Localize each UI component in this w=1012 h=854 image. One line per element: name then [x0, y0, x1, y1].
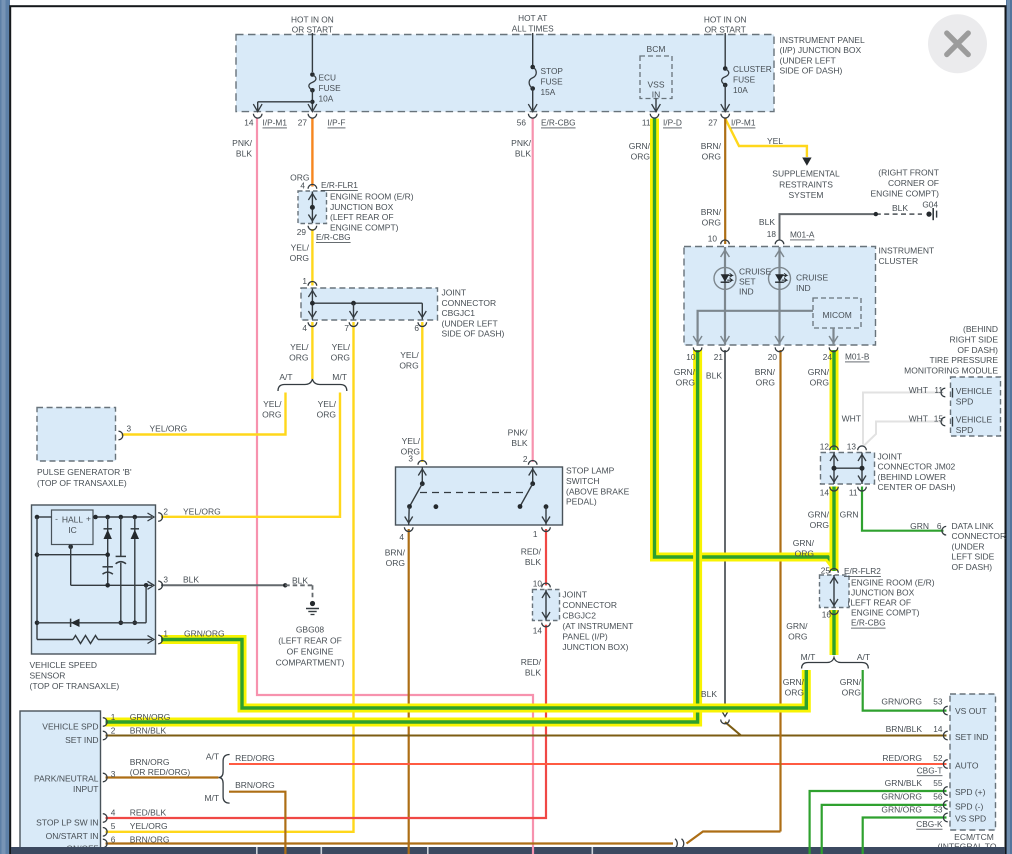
svg-text:14: 14: [933, 724, 943, 734]
svg-text:GRN: GRN: [840, 510, 859, 520]
svg-text:M/T: M/T: [801, 652, 816, 662]
svg-text:2: 2: [111, 726, 116, 736]
svg-text:M01-B: M01-B: [845, 352, 870, 362]
svg-text:3: 3: [111, 769, 116, 779]
svg-text:STOP: STOP: [541, 66, 564, 76]
svg-text:6: 6: [414, 323, 419, 333]
svg-text:E/R-CBG: E/R-CBG: [851, 618, 886, 628]
svg-text:10: 10: [686, 352, 696, 362]
svg-text:1: 1: [163, 629, 168, 639]
svg-text:4: 4: [111, 807, 116, 817]
svg-text:VEHICLE: VEHICLE: [956, 386, 993, 396]
svg-text:PEDAL): PEDAL): [566, 497, 597, 507]
svg-text:HOT IN ON: HOT IN ON: [291, 15, 334, 25]
svg-text:PARK/NEUTRAL: PARK/NEUTRAL: [34, 773, 99, 783]
svg-text:ORG: ORG: [262, 409, 281, 419]
svg-text:BCM: BCM: [647, 44, 666, 54]
svg-text:ORG: ORG: [386, 558, 405, 568]
svg-text:RESTRAINTS: RESTRAINTS: [779, 179, 833, 189]
svg-text:MICOM: MICOM: [823, 310, 852, 320]
svg-text:14: 14: [244, 118, 254, 128]
svg-text:(LEFT REAR OF: (LEFT REAR OF: [848, 598, 912, 608]
svg-text:JOINT: JOINT: [878, 452, 903, 462]
svg-text:10: 10: [533, 579, 543, 589]
svg-text:ORG: ORG: [756, 377, 775, 387]
svg-text:CONNECTOR: CONNECTOR: [562, 600, 617, 610]
svg-text:SPD: SPD: [956, 425, 973, 435]
svg-text:ORG: ORG: [702, 217, 721, 227]
svg-text:I/P-M1: I/P-M1: [263, 118, 288, 128]
svg-text:IN: IN: [652, 90, 661, 100]
svg-text:YEL: YEL: [767, 136, 783, 146]
svg-text:ENGINE ROOM (E/R): ENGINE ROOM (E/R): [851, 577, 935, 587]
svg-text:ORG: ORG: [795, 548, 814, 558]
svg-text:1: 1: [533, 529, 538, 539]
svg-text:DATA LINK: DATA LINK: [952, 521, 995, 531]
svg-text:YEL/: YEL/: [291, 243, 310, 253]
svg-text:GRN/: GRN/: [674, 367, 696, 377]
svg-text:CBGJC2: CBGJC2: [562, 611, 596, 621]
svg-text:BLK: BLK: [701, 689, 717, 699]
svg-text:M/T: M/T: [204, 793, 219, 803]
svg-text:ENGINE COMPT): ENGINE COMPT): [871, 188, 940, 198]
svg-text:YEL/ORG: YEL/ORG: [183, 507, 221, 517]
svg-text:ORG: ORG: [676, 377, 695, 387]
svg-text:JUNCTION BOX: JUNCTION BOX: [851, 587, 915, 597]
svg-text:(LEFT REAR OF: (LEFT REAR OF: [330, 212, 394, 222]
svg-text:1: 1: [302, 276, 307, 286]
svg-text:JUNCTION BOX): JUNCTION BOX): [562, 642, 628, 652]
svg-text:CRUISE: CRUISE: [739, 267, 771, 277]
svg-text:BLK: BLK: [292, 575, 308, 585]
svg-text:18: 18: [767, 229, 777, 239]
svg-text:E/R-FLR2: E/R-FLR2: [844, 566, 881, 576]
svg-text:CRUISE: CRUISE: [796, 273, 828, 283]
svg-text:SWITCH: SWITCH: [566, 476, 600, 486]
svg-text:I/P-D: I/P-D: [663, 118, 682, 128]
svg-text:14: 14: [820, 488, 830, 498]
svg-text:AUTO: AUTO: [955, 761, 979, 771]
svg-text:PNK/: PNK/: [508, 428, 528, 438]
svg-text:PANEL (I/P): PANEL (I/P): [562, 632, 608, 642]
svg-text:IND: IND: [739, 286, 754, 296]
svg-text:2: 2: [523, 454, 528, 464]
svg-text:INSTRUMENT: INSTRUMENT: [879, 245, 935, 255]
svg-text:BLK: BLK: [183, 575, 199, 585]
svg-text:BLK: BLK: [515, 148, 531, 158]
svg-text:BRN/ORG: BRN/ORG: [130, 834, 170, 844]
svg-text:I/P-F: I/P-F: [328, 118, 346, 128]
svg-text:M01-A: M01-A: [790, 230, 815, 240]
svg-text:IND: IND: [796, 283, 811, 293]
svg-text:A/T: A/T: [857, 652, 870, 662]
svg-text:BLK: BLK: [892, 203, 908, 213]
svg-text:ORG: ORG: [317, 409, 336, 419]
svg-text:ECU: ECU: [319, 73, 337, 83]
svg-text:YEL/: YEL/: [402, 436, 421, 446]
svg-text:-: -: [55, 513, 58, 523]
svg-text:25: 25: [821, 566, 831, 576]
svg-text:YEL/ORG: YEL/ORG: [130, 821, 168, 831]
svg-text:GRN/: GRN/: [629, 141, 651, 151]
svg-text:BRN/ORG: BRN/ORG: [235, 780, 275, 790]
svg-text:3: 3: [127, 424, 132, 434]
svg-text:WHT: WHT: [909, 414, 928, 424]
svg-text:BLK: BLK: [525, 668, 541, 678]
svg-text:VS OUT: VS OUT: [955, 706, 987, 716]
svg-text:ORG: ORG: [399, 360, 418, 370]
svg-text:A/T: A/T: [206, 751, 219, 761]
svg-text:(BEHIND: (BEHIND: [963, 324, 998, 334]
svg-text:(I/P) JUNCTION BOX: (I/P) JUNCTION BOX: [780, 45, 862, 55]
svg-text:YEL/: YEL/: [400, 350, 419, 360]
svg-text:11: 11: [934, 385, 943, 395]
svg-text:(ABOVE BRAKE: (ABOVE BRAKE: [566, 486, 630, 496]
svg-text:GRN/: GRN/: [786, 621, 808, 631]
svg-text:PULSE GENERATOR 'B': PULSE GENERATOR 'B': [37, 467, 132, 477]
svg-text:JOINT: JOINT: [562, 590, 587, 600]
svg-text:E/R-FLR1: E/R-FLR1: [321, 180, 358, 190]
svg-text:VEHICLE: VEHICLE: [956, 415, 993, 425]
svg-text:BRN/BLK: BRN/BLK: [886, 724, 923, 734]
svg-text:GRN/ORG: GRN/ORG: [881, 804, 922, 814]
svg-text:3: 3: [163, 575, 168, 585]
svg-text:CLUSTER: CLUSTER: [879, 256, 919, 266]
svg-text:13: 13: [847, 442, 857, 452]
svg-text:SYSTEM: SYSTEM: [789, 190, 824, 200]
svg-text:RED/BLK: RED/BLK: [130, 807, 167, 817]
svg-text:GRN/ORG: GRN/ORG: [881, 697, 922, 707]
svg-text:7: 7: [344, 323, 349, 333]
svg-text:E/R-CBG: E/R-CBG: [316, 232, 351, 242]
svg-text:I/P-M1: I/P-M1: [731, 118, 756, 128]
svg-text:GRN/: GRN/: [808, 510, 830, 520]
svg-text:OF DASH): OF DASH): [957, 345, 998, 355]
svg-text:YEL/: YEL/: [332, 342, 351, 352]
svg-text:15A: 15A: [541, 87, 556, 97]
svg-text:RED/: RED/: [521, 657, 542, 667]
svg-text:CENTER OF DASH): CENTER OF DASH): [878, 482, 956, 492]
svg-text:(UNDER: (UNDER: [952, 541, 985, 551]
svg-text:OF ENGINE: OF ENGINE: [287, 646, 334, 656]
svg-text:CLUSTER: CLUSTER: [733, 64, 772, 74]
svg-text:BRN/: BRN/: [385, 548, 406, 558]
svg-text:(TOP OF TRANSAXLE): (TOP OF TRANSAXLE): [30, 681, 120, 691]
svg-text:15: 15: [934, 414, 944, 424]
svg-text:WHT: WHT: [842, 414, 861, 424]
svg-text:ORG: ORG: [702, 151, 721, 161]
svg-text:VSS: VSS: [647, 80, 664, 90]
svg-text:STOP LP SW IN: STOP LP SW IN: [36, 818, 98, 828]
svg-text:BRN/: BRN/: [701, 141, 722, 151]
svg-text:14: 14: [533, 626, 543, 636]
svg-text:YEL/: YEL/: [290, 342, 309, 352]
svg-text:21: 21: [714, 352, 724, 362]
svg-text:55: 55: [933, 778, 943, 788]
svg-text:RED/: RED/: [521, 547, 542, 557]
svg-text:BLK: BLK: [511, 438, 527, 448]
svg-text:PNK/: PNK/: [232, 138, 252, 148]
svg-text:(RIGHT FRONT: (RIGHT FRONT: [878, 167, 939, 177]
svg-text:CONNECTOR: CONNECTOR: [442, 298, 497, 308]
svg-text:E/R-CBG: E/R-CBG: [541, 118, 576, 128]
svg-text:BLK: BLK: [525, 557, 541, 567]
svg-text:(BEHIND LOWER: (BEHIND LOWER: [878, 472, 946, 482]
svg-text:OR START: OR START: [705, 25, 746, 35]
svg-text:ON/START IN: ON/START IN: [46, 831, 99, 841]
svg-text:ENGINE COMPT): ENGINE COMPT): [330, 222, 399, 232]
svg-text:(OR RED/ORG): (OR RED/ORG): [130, 767, 191, 777]
svg-text:16: 16: [822, 610, 832, 620]
svg-text:SET IND: SET IND: [65, 735, 98, 745]
svg-text:CORNER OF: CORNER OF: [888, 178, 939, 188]
svg-text:6: 6: [111, 834, 116, 844]
svg-text:CBGJC1: CBGJC1: [442, 308, 476, 318]
svg-text:29: 29: [297, 227, 307, 237]
svg-text:WHT: WHT: [909, 385, 928, 395]
svg-text:2: 2: [163, 507, 168, 517]
svg-text:11: 11: [849, 488, 858, 498]
svg-text:BRN/ORG: BRN/ORG: [130, 757, 170, 767]
svg-text:3: 3: [408, 454, 413, 464]
svg-text:FUSE: FUSE: [319, 83, 342, 93]
svg-text:10A: 10A: [733, 85, 748, 95]
svg-text:ALL TIMES: ALL TIMES: [512, 24, 554, 34]
svg-text:ORG: ORG: [331, 352, 350, 362]
svg-text:BRN/BLK: BRN/BLK: [130, 725, 167, 735]
svg-text:12: 12: [820, 442, 830, 452]
svg-text:27: 27: [708, 118, 718, 128]
svg-text:RED/ORG: RED/ORG: [235, 753, 275, 763]
svg-text:FUSE: FUSE: [541, 77, 564, 87]
svg-text:HALL: HALL: [62, 515, 84, 525]
svg-text:CONNECTOR: CONNECTOR: [952, 531, 1007, 541]
svg-text:IC: IC: [68, 525, 77, 535]
svg-text:JOINT: JOINT: [442, 288, 467, 298]
svg-text:(UNDER LEFT: (UNDER LEFT: [780, 55, 836, 65]
svg-text:GRN/: GRN/: [783, 677, 805, 687]
svg-text:SPD (-): SPD (-): [955, 801, 984, 811]
svg-text:SENSOR: SENSOR: [30, 671, 66, 681]
svg-text:1: 1: [111, 712, 116, 722]
svg-text:G04: G04: [922, 200, 938, 210]
svg-text:SUPPLEMENTAL: SUPPLEMENTAL: [772, 169, 840, 179]
svg-text:27: 27: [298, 118, 308, 128]
svg-text:10A: 10A: [319, 94, 334, 104]
svg-text:HOT IN ON: HOT IN ON: [704, 15, 747, 25]
svg-text:GRN/BLK: GRN/BLK: [885, 778, 923, 788]
svg-text:SET IND: SET IND: [955, 732, 988, 742]
svg-text:4: 4: [399, 532, 404, 542]
svg-text:24: 24: [823, 352, 833, 362]
svg-text:SPD: SPD: [956, 396, 973, 406]
svg-text:STOP LAMP: STOP LAMP: [566, 466, 615, 476]
svg-text:ORG: ORG: [631, 151, 650, 161]
svg-text:BLK: BLK: [759, 217, 775, 227]
svg-text:CONNECTOR JM02: CONNECTOR JM02: [878, 462, 956, 472]
svg-text:GRN/ORG: GRN/ORG: [881, 792, 922, 802]
svg-text:(AT INSTRUMENT: (AT INSTRUMENT: [562, 621, 633, 631]
svg-text:MONITORING MODULE: MONITORING MODULE: [904, 366, 998, 376]
svg-text:GRN/ORG: GRN/ORG: [184, 629, 225, 639]
svg-text:VEHICLE SPD: VEHICLE SPD: [42, 722, 98, 732]
svg-text:ORG: ORG: [290, 253, 309, 263]
svg-text:YEL/ORG: YEL/ORG: [150, 424, 188, 434]
svg-text:M/T: M/T: [332, 372, 347, 382]
svg-text:YEL/: YEL/: [263, 399, 282, 409]
svg-text:4: 4: [302, 323, 307, 333]
svg-text:VEHICLE SPEED: VEHICLE SPEED: [30, 660, 98, 670]
svg-text:56: 56: [933, 792, 943, 802]
svg-text:RIGHT SIDE: RIGHT SIDE: [950, 334, 999, 344]
svg-text:SIDE OF DASH): SIDE OF DASH): [780, 66, 843, 76]
svg-text:BLK: BLK: [706, 371, 722, 381]
svg-text:YEL/: YEL/: [318, 399, 337, 409]
svg-text:A/T: A/T: [279, 372, 292, 382]
svg-text:CBG-T: CBG-T: [917, 765, 943, 775]
svg-text:SET: SET: [739, 276, 756, 286]
svg-text:BRN/: BRN/: [755, 367, 776, 377]
svg-text:GBG08: GBG08: [296, 624, 325, 634]
svg-text:11: 11: [642, 118, 651, 128]
svg-text:CBG-K: CBG-K: [916, 819, 943, 829]
svg-text:GRN/: GRN/: [840, 677, 862, 687]
svg-text:COMPARTMENT): COMPARTMENT): [276, 657, 345, 667]
svg-text:GRN/ORG: GRN/ORG: [130, 712, 171, 722]
svg-text:ORG: ORG: [785, 687, 804, 697]
svg-text:4: 4: [300, 181, 305, 191]
svg-text:(UNDER LEFT: (UNDER LEFT: [442, 318, 498, 328]
svg-text:ORG: ORG: [788, 631, 807, 641]
svg-text:FUSE: FUSE: [733, 75, 756, 85]
svg-text:56: 56: [517, 118, 527, 128]
svg-text:6: 6: [937, 521, 942, 531]
svg-text:53: 53: [933, 697, 943, 707]
svg-text:LEFT SIDE: LEFT SIDE: [952, 552, 995, 562]
svg-text:ORG: ORG: [810, 377, 829, 387]
svg-text:BRN/: BRN/: [701, 207, 722, 217]
svg-text:+: +: [86, 513, 91, 523]
svg-text:OR START: OR START: [292, 25, 333, 35]
svg-text:(TOP OF TRANSAXLE): (TOP OF TRANSAXLE): [37, 478, 127, 488]
svg-text:5: 5: [111, 821, 116, 831]
svg-text:INPUT: INPUT: [73, 784, 99, 794]
svg-text:SPD (+): SPD (+): [955, 787, 986, 797]
svg-text:INSTRUMENT PANEL: INSTRUMENT PANEL: [780, 35, 865, 45]
svg-text:SIDE OF DASH): SIDE OF DASH): [442, 329, 505, 339]
svg-text:ENGINE COMPT): ENGINE COMPT): [851, 608, 920, 618]
svg-text:ORG: ORG: [289, 352, 308, 362]
svg-text:52: 52: [933, 753, 943, 763]
svg-text:GRN: GRN: [910, 521, 929, 531]
svg-text:JUNCTION BOX: JUNCTION BOX: [330, 202, 394, 212]
svg-text:20: 20: [768, 352, 778, 362]
svg-text:ORG: ORG: [842, 687, 861, 697]
svg-text:HOT AT: HOT AT: [518, 13, 547, 23]
svg-text:53: 53: [933, 804, 943, 814]
svg-text:VS SPD: VS SPD: [955, 814, 986, 824]
svg-text:TIRE PRESSURE: TIRE PRESSURE: [930, 355, 999, 365]
svg-text:BLK: BLK: [236, 148, 252, 158]
svg-text:ORG: ORG: [810, 520, 829, 530]
svg-text:OF DASH): OF DASH): [952, 562, 993, 572]
svg-text:PNK/: PNK/: [511, 138, 531, 148]
svg-text:ENGINE ROOM (E/R): ENGINE ROOM (E/R): [330, 192, 414, 202]
svg-text:10: 10: [708, 234, 718, 244]
svg-text:GRN/: GRN/: [793, 538, 815, 548]
svg-text:GRN/: GRN/: [808, 367, 830, 377]
svg-text:RED/ORG: RED/ORG: [882, 753, 922, 763]
svg-text:(LEFT REAR OF: (LEFT REAR OF: [278, 635, 342, 645]
